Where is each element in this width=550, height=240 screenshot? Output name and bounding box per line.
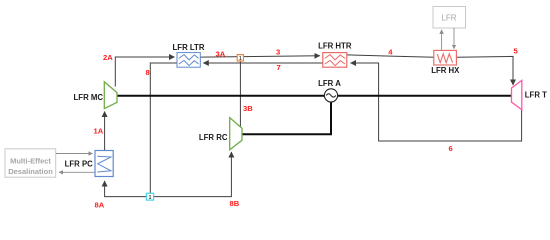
mixer junction node (orange) bbox=[237, 55, 243, 61]
wire 8: LTR hot out left then down to split junction bbox=[150, 63, 177, 193]
svg-text:4: 4 bbox=[388, 47, 393, 56]
compressor LFR MC bbox=[104, 82, 117, 109]
svg-text:LFR RC: LFR RC bbox=[199, 133, 228, 142]
svg-text:5: 5 bbox=[514, 47, 519, 56]
wire 6: turbine exhaust down, left, up into HTR right bbox=[351, 63, 522, 141]
svg-text:8B: 8B bbox=[230, 199, 240, 208]
splitter junction node (cyan) bbox=[146, 193, 153, 200]
wire 4: HTR right to HX bbox=[347, 55, 434, 57]
recompressor LFR RC bbox=[230, 118, 242, 150]
shaft MC-A-T bbox=[117, 95, 512, 97]
Multi-Effect Desalination box bbox=[5, 149, 56, 177]
alternator LFR A bbox=[324, 89, 337, 102]
svg-text:3B: 3B bbox=[243, 104, 253, 113]
svg-text:8: 8 bbox=[146, 68, 150, 77]
svg-text:1A: 1A bbox=[94, 126, 104, 135]
turbine LFR T bbox=[512, 80, 522, 109]
wire LFR to HX (down) bbox=[453, 28, 455, 49]
svg-text:6: 6 bbox=[449, 144, 453, 153]
recuperator LFR LTR bbox=[177, 53, 200, 68]
svg-text:1: 1 bbox=[149, 195, 152, 201]
svg-text:3: 3 bbox=[276, 48, 280, 57]
svg-text:LFR: LFR bbox=[441, 13, 456, 22]
wire 3A/3: LTR right through junction into HTR bbox=[200, 56, 319, 57]
wire 3B: junction down to RC top bbox=[239, 61, 241, 126]
cooler LFR PC bbox=[95, 151, 113, 177]
recuperator LFR HTR bbox=[323, 53, 347, 68]
wire MED to PC bbox=[56, 153, 93, 155]
shaft RC-A bbox=[242, 102, 331, 134]
wire HX to LFR (up) bbox=[441, 30, 443, 51]
svg-text:LFR LTR: LFR LTR bbox=[173, 43, 205, 52]
svg-text:2A: 2A bbox=[103, 53, 113, 62]
wire 1A: PC top up into MC bbox=[104, 112, 106, 151]
wire 7: HTR hot out left into LTR bbox=[203, 62, 322, 64]
svg-text:8A: 8A bbox=[95, 200, 105, 209]
wire 5: HX right, corner, down into turbine bbox=[456, 56, 513, 85]
heater LFR HX bbox=[434, 50, 457, 65]
wire 2A: MC outlet up and right to LTR bbox=[115, 57, 174, 87]
svg-text:LFR MC: LFR MC bbox=[74, 93, 104, 102]
svg-text:Desalination: Desalination bbox=[8, 167, 53, 176]
svg-text:3A: 3A bbox=[216, 49, 226, 58]
wire 8A: junction left then up into PC bbox=[105, 181, 147, 197]
svg-text:LFR T: LFR T bbox=[525, 91, 547, 100]
svg-text:LFR HX: LFR HX bbox=[431, 66, 460, 75]
svg-text:LFR A: LFR A bbox=[318, 79, 341, 88]
svg-text:LFR PC: LFR PC bbox=[65, 159, 94, 168]
svg-text:Multi-Effect: Multi-Effect bbox=[10, 156, 51, 165]
svg-text:7: 7 bbox=[277, 63, 281, 72]
svg-text:LFR HTR: LFR HTR bbox=[318, 41, 352, 50]
wire 8B: junction right then up into RC bbox=[154, 152, 232, 197]
svg-text:1: 1 bbox=[239, 56, 242, 62]
wire PC to MED bbox=[59, 171, 95, 173]
solar field box LFR bbox=[433, 7, 466, 29]
